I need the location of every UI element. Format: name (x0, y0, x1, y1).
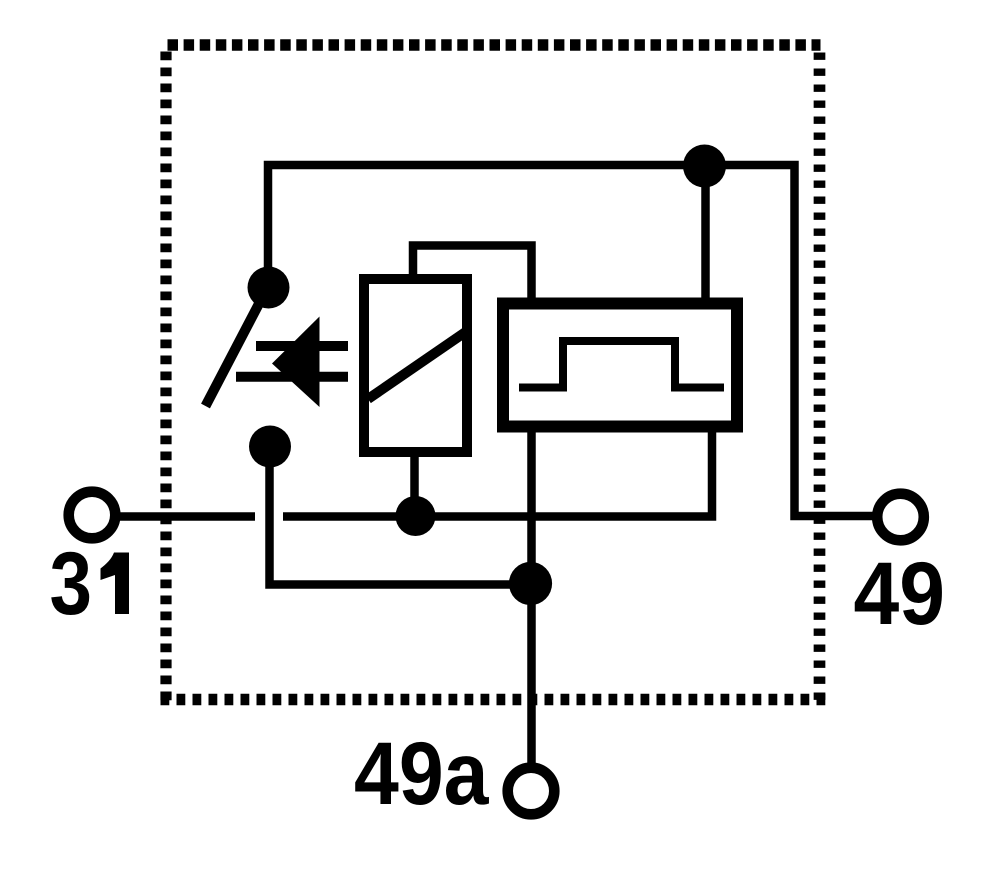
switch S: bottom contact dot (249, 426, 291, 468)
pulse generator U1 (box) (503, 304, 737, 427)
svg-text:49a: 49a (354, 723, 490, 823)
wire: switch bottom contact to 49a node (270, 446, 532, 585)
pulse generator U1: waveform (519, 341, 724, 388)
junction dot: coil bottom on 31 rail (396, 496, 436, 536)
junction dot: top rail / pulse generator (683, 145, 726, 188)
wire: pulse generator bottom to terminal 49a (527, 427, 536, 763)
terminal 31 (circle) (69, 492, 116, 539)
svg-text:3: 3 (50, 533, 93, 633)
wire: 31 rail to pulse generator bottom-right (283, 425, 712, 517)
switch S: lever (206, 296, 264, 406)
switch actuator: lower line (236, 372, 348, 382)
switch S: top contact dot (248, 267, 290, 309)
relay enclosure: left edge (dashed) (160, 52, 171, 706)
wire: terminal 31 into enclosure (breaks before switch wire) (119, 512, 255, 521)
relay coil K1 (box) (364, 279, 467, 452)
svg-text:49: 49 (854, 543, 946, 643)
wire: relay coil top to pulse generator top (413, 246, 532, 306)
wire: junction down to pulse generator top (701, 165, 710, 305)
terminal 49 (circle) (877, 494, 924, 541)
switch actuator: upper line (256, 341, 348, 351)
label 31: digit 1 (drawn) (101, 553, 130, 615)
junction dot: 49a node (509, 562, 552, 605)
wire: relay coil bottom to node on 31 rail (410, 450, 419, 516)
wire: top rail from switch top contact to terminal 49 (268, 165, 873, 516)
relay coil K1: diagonal (368, 331, 467, 399)
relay enclosure: top edge (dashed) (168, 39, 821, 51)
relay enclosure: right edge (dashed) (814, 53, 826, 706)
relay enclosure: bottom edge (dashed) (161, 694, 826, 706)
terminal 49a (circle) (508, 768, 555, 815)
switch actuator: arrow head (272, 317, 320, 408)
